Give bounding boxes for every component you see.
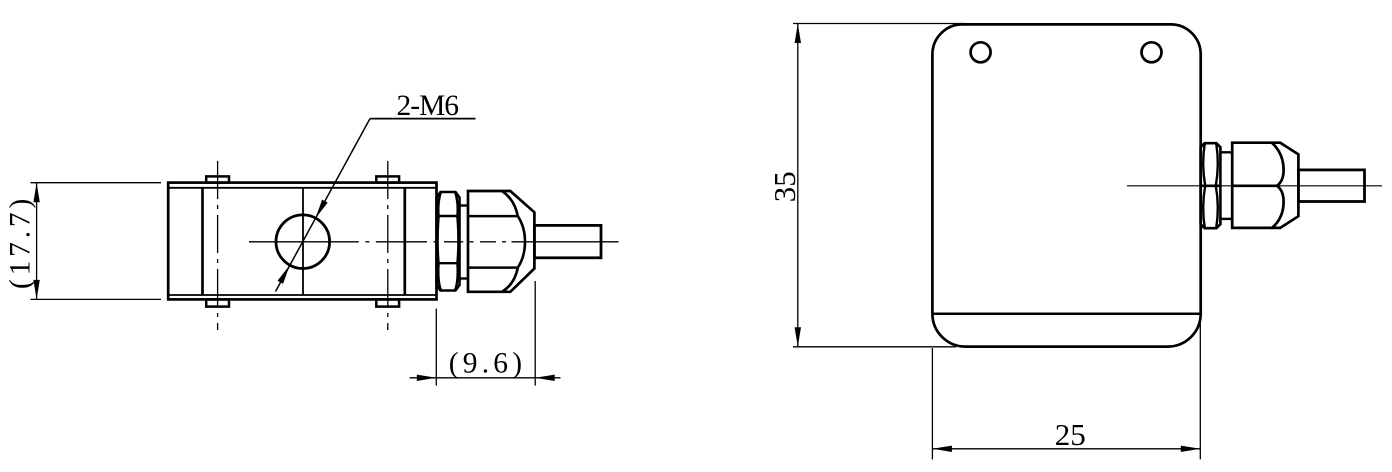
- dimension (17.7): top arrowhead: [33, 183, 39, 203]
- locknut facet arcs (right view): [1203, 143, 1218, 228]
- gland nut facet line upper (left view): [468, 215, 517, 218]
- dimension 35: top extension line: [793, 23, 965, 25]
- dimension (9.6): left arrowhead (outside, points right): [417, 375, 437, 381]
- right view body: rounded plate outline: [932, 24, 1200, 346]
- dimension 25: right arrowhead: [1181, 446, 1201, 452]
- dimension (17.7): bottom extension line: [31, 298, 162, 300]
- mounting hole left (right view): [971, 42, 991, 62]
- cable gland body nut (right view) outline: [1232, 143, 1298, 228]
- svg-text:2-M6: 2-M6: [397, 90, 459, 122]
- dimension 25: dimension line: [932, 448, 1200, 450]
- dimension 35: top arrowhead: [795, 24, 801, 44]
- hole circle 2-M6: [276, 215, 330, 269]
- gland neck (left view) bottom line: [460, 277, 469, 279]
- locknut facet arcs: [438, 192, 459, 291]
- dimension 25: left extension line: [931, 348, 933, 459]
- locknut facet line upper: [437, 215, 460, 217]
- locknut facet line lower: [437, 262, 460, 264]
- gland nut facet arcs (left view): [502, 191, 525, 292]
- dimension (17.7): dimension line: [36, 183, 38, 300]
- left view body: top inner plate line: [168, 187, 436, 189]
- cable (right view): [1298, 170, 1364, 202]
- mounting tab bottom-right: [376, 299, 399, 306]
- cable (left view): [534, 225, 601, 257]
- mounting tab top-right: [376, 176, 399, 182]
- left view body: right inner vertical edge: [403, 188, 406, 295]
- svg-text:25: 25: [1055, 417, 1086, 452]
- dimension 35: dimension line: [797, 24, 799, 347]
- cable gland body nut (left view) outline: [468, 191, 534, 292]
- leader underline: [370, 118, 476, 120]
- gland neck (left view) top line: [460, 204, 469, 206]
- horizontal centerline of left view (dash-dot): [249, 241, 359, 243]
- dimension (17.7): bottom arrowhead: [33, 280, 39, 300]
- dimension 35: bottom extension line: [793, 346, 956, 348]
- dimension 25: left arrowhead: [932, 446, 952, 452]
- svg-text:(17.7): (17.7): [5, 195, 37, 289]
- left view body: outer rectangle: [168, 183, 436, 300]
- dimension (9.6): right arrowhead (outside, points left): [535, 375, 555, 381]
- centerline through right tab: [387, 161, 389, 330]
- mounting tab bottom-left: [206, 299, 229, 306]
- svg-text:(9.6): (9.6): [449, 348, 527, 380]
- gland nut mid facet line (right view): [1232, 184, 1277, 187]
- locknut mid facet line (right view): [1201, 185, 1221, 188]
- dimension (9.6): left extension line: [435, 309, 437, 386]
- mounting tab top-left: [206, 176, 229, 182]
- gland centerline (right view): [1127, 185, 1382, 187]
- gland nut facet arcs (right view): [1272, 143, 1284, 228]
- dimension 35: bottom arrowhead: [795, 327, 801, 347]
- dimension 25: right extension line: [1199, 315, 1201, 459]
- right view body: bottom plate separation line: [932, 312, 1200, 315]
- mounting hole right (right view): [1142, 42, 1162, 62]
- dimension (17.7): top extension line: [31, 182, 162, 184]
- gland nut facet line lower (left view): [468, 266, 517, 269]
- leader line for 2-M6: [276, 119, 371, 292]
- left view body: bottom inner plate line: [168, 294, 436, 296]
- leader arrowhead upper (points at hole edge): [316, 200, 328, 219]
- cable gland locknut (right view) outline: [1201, 143, 1221, 228]
- cable gland locknut (left view) outline: [437, 192, 460, 291]
- left view body: left inner vertical edge: [201, 188, 204, 295]
- dimension (9.6): right extension line: [534, 281, 536, 386]
- leader arrowhead lower (points at hole edge): [278, 265, 290, 284]
- centerline through left tab: [217, 161, 219, 330]
- dimension (9.6): dimension line: [410, 377, 561, 379]
- svg-text:35: 35: [767, 171, 802, 202]
- gland neck (right view) bottom line: [1220, 218, 1232, 220]
- left view body: centre vertical edge: [302, 188, 304, 295]
- gland neck (right view) top line: [1220, 151, 1232, 153]
